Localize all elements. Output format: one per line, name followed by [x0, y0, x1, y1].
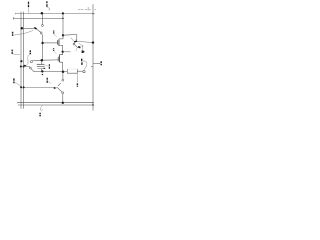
switch S1 lower stub curve: [42, 34, 43, 36]
dark tick right of line 3: [44, 67, 46, 69]
contact circle C6: [83, 70, 85, 72]
junction blob W2 corner: [62, 17, 64, 19]
switch S1 upper contact stub: [41, 14, 43, 24]
switch S1 lower contact circle: [40, 32, 42, 34]
rail junction dots D8 D9 at y=66.5: [20, 65, 22, 67]
S3 bottom stub: [62, 94, 64, 103]
bottom wire W3: [18, 102, 94, 104]
wire W2 second horizontal: [14, 17, 63, 19]
storage node wire y=71.4: [33, 70, 68, 73]
label 54 (rotated, near M2): [53, 48, 55, 51]
wire from element to right rail: [77, 41, 93, 42]
leader from W4 down to label 422: [40, 105, 42, 110]
label 408 right of capacitor: [48, 64, 50, 69]
M1 source / M2 drain junction dot D6: [62, 51, 64, 53]
junction dot D15 on W3: [62, 102, 64, 104]
vertical from S1 down to M2 gate line (x=42.4): [42, 36, 44, 60]
capacitor bottom stub: [41, 69, 43, 71]
right rail (x=93): [92, 4, 94, 110]
leader from 414 down to C6: [83, 61, 87, 70]
junction dot D2 on W1: [62, 12, 64, 14]
gate wire open circle C4: [30, 61, 32, 63]
M2 drain path: [59, 52, 62, 55]
MOSFET M1 channel bar: [58, 39, 60, 46]
junction dot D10: [41, 70, 43, 72]
MOSFET M2 gate bar: [57, 57, 59, 61]
leader from 402 toward S1 pivot: [14, 30, 34, 35]
thin leader from label 56 down to tap wire end: [75, 48, 77, 51]
S3 bottom contact circle C8: [62, 92, 64, 94]
leader from box down to label 412: [76, 73, 79, 82]
wire W1 left end tick: [14, 13, 16, 15]
junction dot D11: [62, 70, 65, 73]
arrowhead at S3 arm: [54, 87, 57, 89]
junction dot D17 W3 x rail: [92, 102, 93, 103]
box element 412: [67, 69, 77, 73]
W4 left tick: [18, 104, 20, 106]
thick bar (arrowhead) upper right element: [74, 41, 77, 42]
label 406 (rotated, top middle): [46, 1, 48, 7]
label 414 (rotated, above C6): [81, 59, 83, 65]
M1 source path: [59, 45, 63, 51]
tap wire right from D6: [63, 51, 71, 53]
label 418 (rotated, bottom left): [13, 78, 15, 83]
wire W2 left end tick: [13, 17, 15, 20]
arm from C3 down-right: [75, 45, 78, 48]
capacitor plate 2: [37, 66, 45, 68]
diagonal lead upper right element: [71, 38, 74, 41]
label 412 (rotated, below box): [76, 83, 78, 86]
left rail A (x=21): [20, 12, 22, 109]
MOSFET M2 channel bar: [58, 55, 60, 62]
wire from node x=63 to upper right element: [63, 34, 77, 37]
wire box to contact circle: [77, 70, 82, 72]
label 402 (rotated, left): [12, 32, 14, 36]
S1 pole junction dot on left rail: [21, 27, 24, 30]
leader squiggle from 418 to rails: [15, 83, 21, 87]
capacitor top stub: [41, 61, 43, 64]
label 404 (rotated, top left): [28, 2, 30, 8]
M2 source path: [59, 62, 62, 71]
label 60 (rotated, right of rail): [100, 61, 102, 65]
S1 pivot blob: [34, 28, 36, 30]
W3 left tick: [17, 102, 19, 104]
S3 arm upper segment: [58, 83, 61, 86]
M2 gate wire with open circle end: [32, 59, 58, 62]
label 52 (rotated, near M1): [53, 31, 55, 34]
arrowhead at rails: [24, 64, 26, 67]
S3 arm lower segment: [57, 87, 62, 92]
contact circle C3: [73, 43, 75, 45]
label 56 (tiny, below arm): [79, 46, 80, 48]
leader from label 52: [54, 34, 57, 37]
MOSFET M1 gate bar: [56, 40, 58, 44]
curve from arm area to label blob: [79, 43, 83, 50]
M1 gate wire: [43, 42, 58, 44]
leader from 408 to capacitor: [45, 65, 49, 66]
leader from label 404 down to W1: [28, 8, 30, 13]
M1 drain path: [59, 36, 63, 39]
vertical from W1/W2 to node at x=63: [62, 13, 64, 35]
junction dot D16 W4 x rail: [92, 104, 94, 106]
junction dot D7 (cap tap): [41, 59, 44, 62]
leader from label 54: [54, 51, 56, 53]
S3 top stub from D11: [62, 72, 64, 80]
S3 top contact circle C7: [62, 79, 64, 81]
upper right element vertical with hook: [76, 35, 77, 40]
leader arrow line to S3 arm: [25, 87, 54, 89]
leader hook from label 406: [47, 7, 50, 10]
rail arm tick: [91, 66, 93, 68]
switch S1 arm: [37, 29, 41, 32]
wire from rail to S2 contact: [24, 66, 31, 69]
label 410 (rotated, under wire): [46, 78, 48, 83]
leader from label 410: [48, 81, 52, 83]
switch S1 upper contact circle: [41, 25, 43, 27]
tiny mark pair right of arm: [82, 46, 83, 47]
label 58 blob: [82, 50, 83, 53]
dashed text VPP row top right: [78, 7, 96, 11]
rail crossing blobs D13 D14: [20, 86, 22, 88]
junction dot D12 on right rail: [92, 41, 94, 43]
junction dot D5 (M1 gate tap): [41, 42, 43, 44]
junction dot D1 on W1: [41, 12, 44, 15]
wavy output leader from right rail: [94, 62, 101, 65]
S2 arm: [31, 69, 33, 71]
label 420 (rotated, left mid): [11, 50, 13, 54]
leader from 416 down-left to rail dots: [26, 54, 30, 65]
label 422 (rotated, bottom): [39, 113, 41, 117]
wire W1 top horizontal: [15, 12, 95, 14]
S2 contact circle C5: [30, 67, 32, 69]
left rail B (x=23.3): [22, 12, 24, 109]
leader squiggle from 420 to left rail: [13, 53, 20, 56]
label 416 (rotated above C4): [29, 50, 31, 54]
capacitor lower line 3: [37, 67, 44, 69]
junction dot D4 (x=63 node): [62, 34, 64, 36]
junction dot on left rail at y=61.2: [20, 60, 22, 62]
S1 pole wire from rail to pivot: [23, 27, 35, 29]
bottom wire W4: [19, 104, 93, 106]
label blob under D10: [42, 73, 43, 75]
junction dot D3 W1 x right rail: [92, 13, 93, 14]
capacitor plate 1: [37, 63, 45, 65]
